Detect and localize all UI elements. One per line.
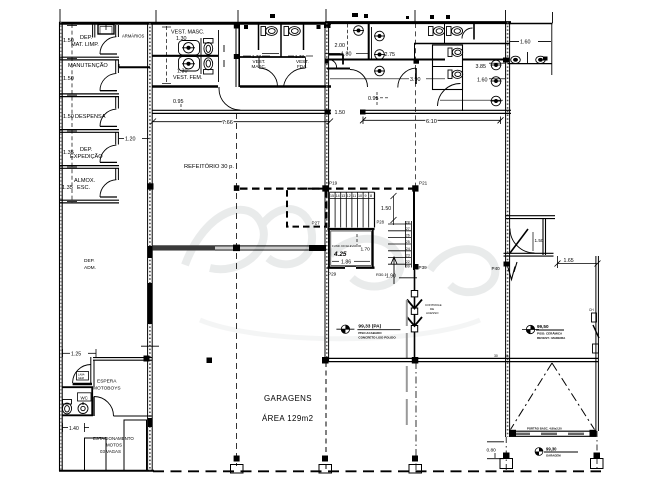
right room door <box>510 229 535 254</box>
svg-text:MOTOBOYS: MOTOBOYS <box>93 386 121 392</box>
garagens top wall <box>153 246 327 250</box>
svg-text:1.35: 1.35 <box>62 185 73 191</box>
svg-text:P27: P27 <box>312 221 321 226</box>
vest toilets <box>204 39 214 75</box>
room labels <box>62 35 108 191</box>
access control line <box>414 270 416 358</box>
garage door triangle dash-dot <box>511 363 595 430</box>
svg-text:VEST. MASC.: VEST. MASC. <box>171 30 205 36</box>
svg-text:12: 12 <box>347 194 351 198</box>
1.60 block top right <box>508 24 552 76</box>
svg-text:ESPERA: ESPERA <box>97 379 117 385</box>
watermark <box>185 209 495 339</box>
svg-text:DEP.: DEP. <box>84 258 95 264</box>
svg-text:99,50: 99,50 <box>537 324 549 329</box>
svg-text:PORTÃO BASC. 4.80x2.20: PORTÃO BASC. 4.80x2.20 <box>527 426 562 431</box>
svg-text:ADM.: ADM. <box>84 265 96 271</box>
svg-text:PISO: CERÂMICA: PISO: CERÂMICA <box>537 331 563 336</box>
vest labels + dims <box>171 30 205 106</box>
svg-text:30: 30 <box>494 354 498 358</box>
svg-text:1.60: 1.60 <box>477 78 488 84</box>
svg-text:REFEITÓRIO 30 p.: REFEITÓRIO 30 p. <box>184 163 234 170</box>
svg-text:1.60: 1.60 <box>520 40 531 46</box>
svg-text:CH: CH <box>589 308 594 312</box>
svg-text:99,30: 99,30 <box>546 447 557 452</box>
dims right bathrooms <box>335 43 488 116</box>
svg-text:ESTACIONAMENTO: ESTACIONAMENTO <box>93 436 134 441</box>
svg-text:27: 27 <box>406 227 410 231</box>
svg-text:MAT. LIMP.: MAT. LIMP. <box>71 42 99 48</box>
svg-text:DESPENSA: DESPENSA <box>75 114 106 120</box>
svg-text:EXPEDIÇÃO: EXPEDIÇÃO <box>70 153 103 160</box>
1.25 dim <box>63 349 97 357</box>
svg-text:8: 8 <box>370 194 372 198</box>
svg-text:GARAGENS: GARAGENS <box>264 394 312 403</box>
svg-text:23: 23 <box>406 253 410 257</box>
svg-text:P21: P21 <box>419 181 428 186</box>
toilets right section top stalls <box>429 27 463 79</box>
outer top wall <box>59 21 553 25</box>
svg-text:1.50: 1.50 <box>381 206 391 212</box>
svg-text:1.25: 1.25 <box>71 352 81 358</box>
svg-text:FDA.: FDA. <box>297 64 307 69</box>
99,50 marker <box>522 324 566 340</box>
svg-text:99,33 (PA): 99,33 (PA) <box>358 324 381 330</box>
espera motoboys top wall <box>93 358 152 361</box>
svg-text:ÁREA 129m2: ÁREA 129m2 <box>262 414 313 423</box>
svg-text:28: 28 <box>406 220 410 224</box>
main vertical wall (refeitorio left) dotted double <box>141 23 159 471</box>
parking stalls <box>85 420 147 471</box>
svg-text:1.86: 1.86 <box>341 260 351 266</box>
svg-text:9: 9 <box>365 194 367 198</box>
svg-text:P19: P19 <box>329 181 338 186</box>
svg-text:PISO ACABADO: PISO ACABADO <box>358 331 382 335</box>
espera door arc <box>94 397 114 417</box>
7.66 dimension <box>150 119 333 125</box>
svg-text:31: 31 <box>505 354 509 358</box>
svg-text:1.50: 1.50 <box>63 114 74 120</box>
vest masc/fem block (left) walls <box>152 24 331 87</box>
estacionamento labels <box>93 436 134 454</box>
6.10 dimension <box>360 117 504 125</box>
left rooms right wall with door gaps <box>116 25 119 180</box>
corridor 0.95 door arc <box>219 89 240 110</box>
left rooms dividers <box>59 57 119 203</box>
svg-text:WC: WC <box>81 396 88 401</box>
svg-text:MASC.: MASC. <box>252 64 267 69</box>
dashed wall below stairs x=326 <box>325 362 327 470</box>
mid stall toilets (sideways) <box>261 27 300 36</box>
svg-text:0.95: 0.95 <box>173 99 184 105</box>
right wall x=597 <box>596 256 599 431</box>
99,30 marker <box>535 447 578 458</box>
svg-text:LAVA-: LAVA- <box>78 373 85 377</box>
bottom columns + footings <box>234 453 600 462</box>
svg-text:VEST. FEM.: VEST. FEM. <box>173 75 202 81</box>
svg-text:11: 11 <box>352 194 356 198</box>
mid section door arcs <box>259 58 306 87</box>
bottom-left outer wall <box>59 470 154 472</box>
small door tags above wall <box>270 13 450 19</box>
svg-text:1.50: 1.50 <box>335 110 346 116</box>
room door arcs <box>100 37 117 197</box>
svg-text:P40: P40 <box>492 266 501 271</box>
stairs upper flight <box>330 192 375 227</box>
svg-text:1.50: 1.50 <box>535 238 544 243</box>
svg-text:P29: P29 <box>328 272 337 277</box>
svg-text:ALMOX.: ALMOX. <box>74 178 96 184</box>
labels 1.77 <box>252 54 309 69</box>
1.65 dim <box>555 256 601 268</box>
P19-P21 dashed header <box>240 188 413 190</box>
right room: top wall <box>504 216 556 256</box>
right wall x=505-510 dotted <box>506 22 510 437</box>
mid stalls section (240-330) <box>240 24 306 57</box>
elevator shaft <box>328 229 375 268</box>
svg-text:10: 10 <box>358 194 362 198</box>
svg-text:ARMÁRIOS: ARMÁRIOS <box>122 34 145 39</box>
svg-text:7.66: 7.66 <box>222 120 233 126</box>
svg-text:03 VAGAS: 03 VAGAS <box>100 449 121 454</box>
svg-text:3.85: 3.85 <box>476 64 487 70</box>
svg-text:0.80: 0.80 <box>487 448 497 454</box>
garage threshold <box>509 430 597 437</box>
1.20 dim <box>119 138 149 140</box>
svg-text:CONCRETO LISO POLIDO: CONCRETO LISO POLIDO <box>358 336 396 340</box>
wall right of stairs <box>413 190 415 270</box>
gray ramp line <box>406 300 408 432</box>
svg-text:25: 25 <box>406 240 410 244</box>
99,33 elevation marker <box>336 324 400 340</box>
door arcs right bathrooms <box>325 28 473 106</box>
vest fixtures: 2 basins in rounded boxes <box>179 41 200 72</box>
svg-text:2.00: 2.00 <box>335 43 346 49</box>
dashed centerline x=236.5 <box>236 113 238 466</box>
svg-text:22: 22 <box>406 260 410 264</box>
wc toilet <box>62 400 88 414</box>
svg-text:14: 14 <box>336 194 340 198</box>
svg-text:MANUTENÇÃO: MANUTENÇÃO <box>68 62 108 69</box>
svg-text:4.25: 4.25 <box>333 251 347 258</box>
svg-text:DEP.: DEP. <box>80 147 93 153</box>
svg-text:P39: P39 <box>419 265 428 270</box>
svg-text:09: 09 <box>406 265 410 269</box>
svg-text:24: 24 <box>406 247 410 251</box>
lava door quarter + tag <box>73 365 91 384</box>
svg-text:2.75: 2.75 <box>385 52 396 58</box>
svg-text:1.80: 1.80 <box>341 52 352 58</box>
dashed centerline of left rooms <box>71 24 73 203</box>
small node refeitorio <box>207 358 213 364</box>
1.40 dim <box>63 423 90 432</box>
svg-text:MOTOS: MOTOS <box>106 443 122 448</box>
bathrooms mid-right: horizontal wall y=59.5 <box>325 23 510 111</box>
top extension ticks <box>60 9 553 23</box>
svg-text:1.65: 1.65 <box>564 258 574 264</box>
armarios niche: cabinet + bottom wall <box>92 24 94 38</box>
long wall y=360 <box>324 358 598 361</box>
svg-text:DEP.: DEP. <box>80 35 93 41</box>
svg-text:1.70: 1.70 <box>361 247 371 253</box>
svg-text:6.10: 6.10 <box>426 119 437 125</box>
wall attachments right <box>592 313 600 353</box>
bathrooms bottom wall y=110-113.5 <box>153 110 512 113</box>
svg-text:GEM: GEM <box>78 376 84 380</box>
svg-text:GARAGEM: GARAGEM <box>546 454 561 458</box>
wc room <box>62 387 93 416</box>
stairs down flight right <box>388 221 411 268</box>
right vest block main vertical wall x=325-329 dotted <box>325 23 329 362</box>
svg-text:1.30: 1.30 <box>177 69 188 75</box>
svg-text:P28: P28 <box>377 220 385 225</box>
svg-text:REVEST.: MADEIRA: REVEST.: MADEIRA <box>537 336 566 340</box>
svg-text:26: 26 <box>406 234 410 238</box>
dashed grid line x=415 <box>415 23 417 189</box>
P27 dashed box <box>287 189 327 227</box>
svg-text:ACESSO: ACESSO <box>426 311 439 315</box>
svg-text:1.20: 1.20 <box>125 137 136 143</box>
svg-text:1.50: 1.50 <box>63 76 74 82</box>
svg-text:1.40: 1.40 <box>69 426 79 432</box>
left outer wall <box>60 22 63 471</box>
svg-text:15: 15 <box>330 194 334 198</box>
svg-text:ESC.: ESC. <box>77 185 91 191</box>
junction squares top wall <box>234 22 331 59</box>
svg-text:13: 13 <box>341 194 345 198</box>
bottom property dashed line <box>153 470 601 472</box>
basins right section <box>353 26 502 106</box>
svg-text:1.90: 1.90 <box>386 274 396 280</box>
svg-text:1.30: 1.30 <box>176 36 187 42</box>
